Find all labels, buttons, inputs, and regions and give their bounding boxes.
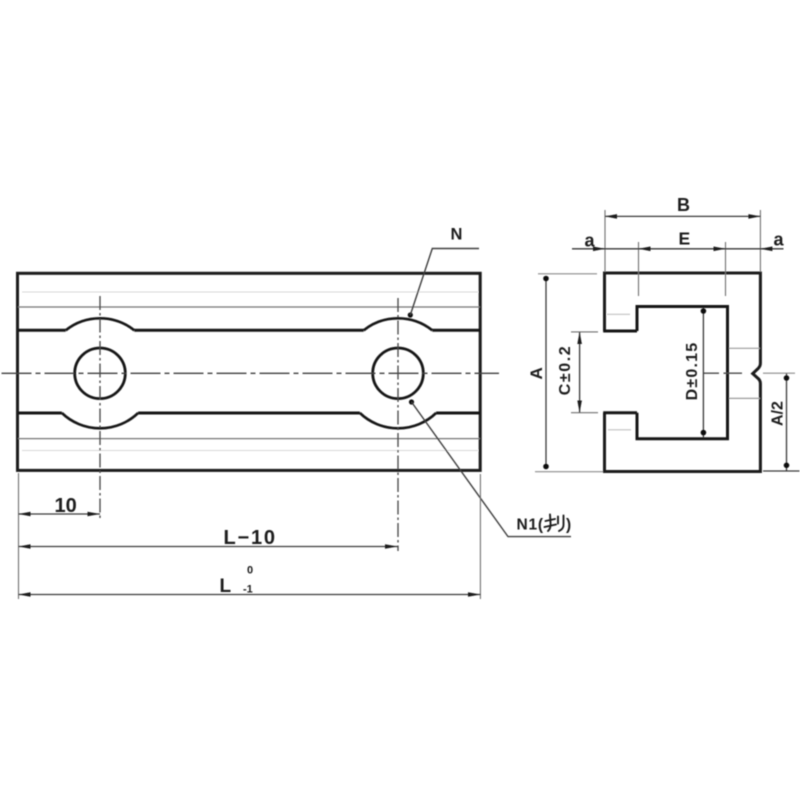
svg-text:): ): [566, 517, 571, 534]
extension line front left: [18, 473, 20, 599]
section view outline with break notch: [605, 273, 761, 472]
slot throat edge upper (thick, broken at spotface arcs): [18, 329, 480, 332]
ghost line upper: [22, 291, 478, 293]
svg-text:E: E: [679, 229, 691, 249]
extension line front right: [479, 474, 481, 599]
ghost line left wall lower: [608, 429, 631, 431]
throat top surface: [603, 330, 637, 333]
front view outer outline: [18, 273, 481, 470]
dimension D +/-0.15: [702, 308, 704, 439]
dimension line E and a: [572, 248, 784, 250]
svg-text:C±0.2: C±0.2: [557, 345, 574, 396]
hole edge in right wall upper: [729, 347, 760, 349]
dimension L-10: [19, 546, 398, 548]
extension line E right: [725, 242, 727, 296]
leader N1 (kiri): [409, 399, 414, 404]
extension line A top: [538, 273, 597, 275]
dimension A/2: [786, 374, 788, 471]
extension line A/2 bottom: [763, 470, 800, 472]
spotface arc below hole 1: [62, 413, 138, 428]
extension line C bottom: [571, 412, 598, 414]
throat bottom surface: [603, 411, 637, 414]
svg-text:0: 0: [247, 565, 253, 577]
svg-text:A/2: A/2: [770, 401, 787, 426]
vertical center line hole 1: [99, 296, 101, 520]
dimension C +/-0.2: [579, 332, 581, 413]
svg-text:N1(: N1(: [517, 517, 544, 534]
slot inner edge upper (thin): [18, 306, 480, 308]
svg-text:A: A: [527, 367, 546, 379]
svg-text:-1: -1: [243, 584, 253, 596]
horizontal center line through holes: [2, 372, 500, 374]
svg-text:a: a: [774, 230, 785, 250]
svg-text:10: 10: [55, 495, 77, 517]
extension line E left: [638, 242, 640, 296]
spotface arc below hole 2: [360, 413, 436, 428]
vertical center line hole 2: [397, 298, 399, 551]
svg-text:D±0.15: D±0.15: [684, 342, 701, 401]
dimension B: [605, 215, 760, 217]
leader N: [408, 312, 413, 317]
svg-text:N: N: [451, 226, 463, 244]
spotface arc above hole 2: [364, 318, 433, 330]
svg-text:L−10: L−10: [224, 527, 277, 549]
extension line B left: [604, 210, 606, 272]
cavity outline: [637, 307, 728, 439]
extension line A bottom: [535, 471, 603, 473]
ghost line lower: [22, 450, 478, 452]
dimension L with tolerance: [19, 594, 481, 596]
extension line C top: [571, 331, 598, 333]
spotface arc above hole 1: [66, 318, 135, 330]
hole 2 circle: [373, 348, 424, 399]
slot throat edge lower (thick, broken at spotface arcs): [18, 412, 480, 415]
dimension 10: [19, 513, 101, 515]
svg-text:B: B: [677, 195, 690, 215]
ghost line left wall upper: [607, 313, 630, 315]
hole 1 circle: [75, 348, 126, 399]
slot inner edge lower (thin): [18, 438, 480, 440]
extension line B right: [759, 210, 761, 272]
svg-text:a: a: [585, 231, 596, 251]
hole edge in right wall lower: [729, 397, 760, 399]
svg-text:L: L: [220, 576, 232, 597]
section center line: [704, 372, 742, 374]
dimension A: [545, 278, 547, 468]
extension line A/2 top: [763, 372, 795, 374]
